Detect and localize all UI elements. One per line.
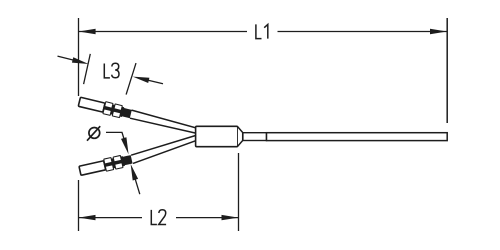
extension line L2 left (78, 180, 80, 231)
arrow diameter down (121, 137, 129, 154)
sheath tube (267, 133, 448, 141)
leader diameter (106, 132, 124, 139)
sheath sleeve (243, 133, 267, 141)
transition body (196, 126, 238, 146)
dimension line L2 (79, 217, 239, 219)
arrow L3 left (58, 56, 89, 64)
extension line L2 right (238, 153, 240, 231)
label L3 (104, 63, 119, 78)
extension line L1 left (78, 18, 80, 96)
connector terminal lower (body, crimp, band) (79, 153, 133, 176)
label L2 (151, 210, 166, 225)
extension line L1 right (446, 18, 448, 123)
arrow L1 right (430, 29, 447, 34)
arrow L2 right (222, 215, 239, 220)
arrow L2 left (79, 215, 96, 220)
diameter symbol (87, 126, 100, 141)
arrow L3 right (133, 77, 163, 84)
extension line L3 left (slanted) (84, 54, 91, 84)
arrow diameter up (131, 164, 140, 194)
arrow L1 left (79, 29, 96, 34)
taper neck (238, 127, 243, 146)
connector terminal upper (body, crimp, band) (78, 96, 132, 120)
extension line L3 right (slanted) (126, 63, 136, 95)
label L1 (256, 24, 268, 38)
dimension line L1 (79, 31, 448, 33)
wire upper lead (130, 110, 197, 133)
wire lower lead (131, 135, 197, 163)
